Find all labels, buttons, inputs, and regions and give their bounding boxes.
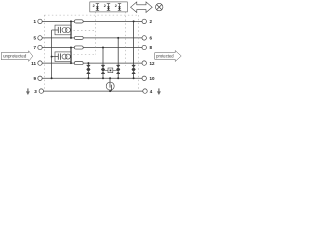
svg-text:12: 12 [150,61,156,66]
svg-text:unprotected: unprotected [3,54,27,59]
svg-text:10: 10 [150,76,156,81]
svg-text:protected: protected [156,54,174,59]
svg-text:2: 2 [115,4,117,8]
svg-text:11: 11 [31,61,36,66]
svg-text:2: 2 [104,4,106,8]
svg-text:2: 2 [93,4,95,8]
